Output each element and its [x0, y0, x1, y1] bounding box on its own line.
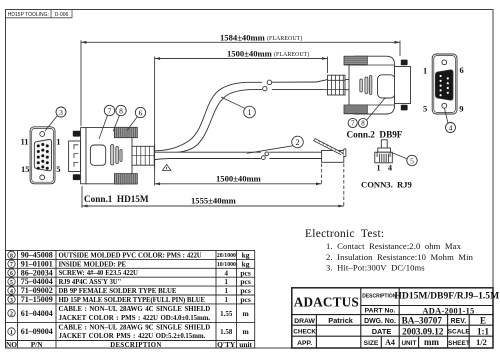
svg-text:SIZE: SIZE [364, 340, 379, 347]
svg-text:DESCRIPTION: DESCRIPTION [362, 294, 397, 300]
callout 6 [127, 107, 146, 130]
bom item 3 row [8, 295, 251, 304]
svg-text:(FLAREOUT): (FLAREOUT) [274, 51, 309, 58]
svg-text:pcs: pcs [240, 277, 251, 286]
svg-text:1: 1 [10, 330, 13, 336]
svg-text:RJ9 4P4C ASS'Y 3U": RJ9 4P4C ASS'Y 3U" [59, 279, 122, 286]
svg-text:2. Insulation Resistance:10: 2. Insulation Resistance:10 Mohm Min [326, 252, 474, 262]
svg-text:28/1000: 28/1000 [217, 253, 236, 259]
callout 8 db9f [358, 98, 385, 128]
callout 5 [392, 153, 418, 166]
svg-text:71–15009: 71–15009 [21, 295, 53, 304]
svg-text:3. Hit–Pot:300V DC/10ms: 3. Hit–Pot:300V DC/10ms [326, 263, 425, 273]
svg-text:2: 2 [296, 138, 300, 147]
svg-text:DESCRIPTION: DESCRIPTION [110, 342, 162, 349]
cable 9C upper [155, 82, 317, 153]
svg-text:OUTSIDE MOLDED PVC COLOR: PMS: OUTSIDE MOLDED PVC COLOR: PMS : 422U [59, 252, 202, 259]
svg-text:Electronic Test:: Electronic Test: [305, 228, 384, 240]
svg-text:4: 4 [388, 164, 392, 173]
break mark upper cable [262, 80, 272, 91]
svg-text:INSIDE MOLDED: PE: INSIDE MOLDED: PE [59, 261, 127, 268]
svg-text:JACKET COLOR PMS : 422U OD:5.2: JACKET COLOR PMS : 422U OD:5.2±0.15mm. [59, 333, 206, 340]
wing bottom [344, 105, 367, 114]
bom item 2 row [8, 306, 250, 322]
svg-text:m: m [242, 309, 249, 318]
DB9F side view [317, 56, 411, 114]
svg-text:pcs: pcs [240, 268, 251, 277]
svg-text:BA–30707: BA–30707 [402, 315, 443, 325]
RJ9 plug side view [314, 139, 346, 163]
svg-text:Q'TY: Q'TY [217, 340, 236, 349]
svg-text:DB 9P FEMALE SOLDER TYPE BLUE: DB 9P FEMALE SOLDER TYPE BLUE [59, 288, 177, 295]
metal part [395, 67, 411, 104]
tooling box [6, 10, 73, 18]
svg-text:6: 6 [10, 271, 13, 277]
callout 4 [445, 109, 456, 133]
svg-text:61–09004: 61–09004 [21, 327, 53, 336]
boot neck [345, 79, 350, 89]
svg-text:5: 5 [56, 164, 60, 174]
svg-text:APP.: APP. [297, 340, 312, 347]
svg-text:1555±40mm: 1555±40mm [191, 196, 237, 206]
svg-text:4: 4 [10, 289, 13, 295]
screw 6 top (knurled) [114, 127, 137, 137]
svg-text:90–45008: 90–45008 [21, 251, 53, 260]
svg-text:1584±40mm: 1584±40mm [220, 32, 266, 42]
svg-text:1: 1 [56, 137, 60, 147]
svg-text:pcs: pcs [240, 295, 251, 304]
latch [314, 139, 343, 155]
svg-text:D-006: D-006 [55, 12, 69, 18]
svg-text:kg: kg [242, 259, 250, 268]
shell [349, 56, 395, 114]
svg-text:10/1000: 10/1000 [217, 262, 236, 268]
svg-text:UNIT: UNIT [401, 340, 416, 347]
callout 1 [221, 97, 255, 118]
svg-text:11: 11 [20, 137, 28, 147]
svg-text:kg: kg [242, 251, 250, 260]
callout 7 db9f [348, 118, 357, 127]
svg-text:91–01001: 91–01001 [21, 259, 53, 268]
svg-text:1: 1 [377, 164, 381, 173]
metal D-sub shell [69, 141, 81, 172]
svg-text:SCALE: SCALE [448, 329, 471, 336]
title block [292, 288, 499, 348]
svg-text:1/2: 1/2 [476, 338, 487, 347]
grip slots [360, 79, 363, 92]
svg-text:(FLAREOUT): (FLAREOUT) [267, 35, 302, 42]
dimension 1584 [81, 40, 400, 126]
pins [37, 143, 49, 170]
svg-text:ADACTUS: ADACTUS [294, 295, 359, 310]
svg-text:3: 3 [59, 108, 63, 117]
svg-text:ADA-2001-15: ADA-2001-15 [422, 306, 474, 315]
svg-text:DWG. No.: DWG. No. [364, 318, 396, 325]
svg-text:3: 3 [10, 298, 13, 304]
break mark lower cable [261, 151, 269, 159]
cable flare boot [317, 80, 328, 90]
svg-text:2003.09.12: 2003.09.12 [402, 327, 444, 337]
svg-text:HD15M/DB9F/RJ9–1.5M: HD15M/DB9F/RJ9–1.5M [394, 291, 499, 302]
svg-text:1. Contact Resistance:2.0 o: 1. Contact Resistance:2.0 ohm Max [326, 241, 462, 251]
cable 4C lower [155, 152, 323, 159]
svg-text:75–04004: 75–04004 [21, 277, 53, 286]
callout 3 [45, 107, 66, 131]
DB9 face view [432, 54, 457, 114]
panel [378, 75, 395, 98]
screw top [73, 131, 81, 137]
dimension 1500 bottom [155, 164, 322, 184]
extension line over cables [154, 144, 156, 170]
screws [401, 60, 408, 66]
svg-text:unit: unit [239, 340, 252, 349]
svg-text:1: 1 [224, 296, 228, 304]
svg-text:Conn.1 HD15M: Conn.1 HD15M [84, 194, 149, 204]
svg-text:1: 1 [224, 287, 228, 295]
svg-text:SCREW: 4#–40 E23.5 422U: SCREW: 4#–40 E23.5 422U [59, 270, 139, 277]
svg-text:1500±40mm: 1500±40mm [216, 173, 262, 183]
svg-text:15: 15 [21, 164, 30, 174]
callout 8 [113, 105, 126, 131]
svg-text:4: 4 [224, 269, 228, 277]
svg-text:Conn.2 DB9F: Conn.2 DB9F [347, 130, 403, 140]
svg-text:P/N: P/N [31, 340, 44, 349]
bom header row [6, 340, 253, 349]
svg-text:1.55: 1.55 [220, 310, 233, 318]
RJ9 front view [375, 140, 393, 163]
svg-text:2: 2 [10, 312, 13, 318]
svg-text:71–09002: 71–09002 [21, 286, 53, 295]
svg-text:JACKET COLOR : PMS : 422U OD:4: JACKET COLOR : PMS : 422U OD:4.0±0.15mm. [59, 315, 211, 322]
svg-text:6: 6 [139, 108, 143, 117]
svg-text:1: 1 [423, 66, 427, 76]
svg-text:8: 8 [119, 106, 123, 115]
svg-text:4: 4 [449, 123, 453, 132]
svg-text:8: 8 [10, 253, 13, 259]
grip slots [111, 145, 114, 166]
svg-text:CABLE : NON–UL 28AWG 9C SINGLE: CABLE : NON–UL 28AWG 9C SINGLE SHIELD [59, 324, 211, 331]
svg-text:pcs: pcs [240, 286, 251, 295]
svg-text:Patrick: Patrick [328, 316, 354, 325]
D insert [34, 139, 51, 170]
svg-text:7: 7 [108, 106, 112, 115]
svg-text:1500±40mm: 1500±40mm [227, 49, 273, 59]
strain relief [132, 146, 154, 165]
svg-text:mm: mm [424, 337, 439, 347]
svg-text:CONN3. RJ9: CONN3. RJ9 [361, 180, 412, 190]
bom item 6 row [8, 268, 251, 277]
HD15M side view [69, 127, 155, 184]
svg-text:8: 8 [361, 120, 365, 128]
BOM table [6, 251, 255, 349]
svg-text:m: m [242, 327, 249, 336]
svg-text:1.58: 1.58 [220, 328, 233, 336]
dimension 1555 [82, 164, 344, 208]
svg-text:61–04004: 61–04004 [21, 309, 53, 318]
svg-text:9: 9 [459, 103, 463, 113]
holes [40, 132, 45, 137]
svg-text:DRAW: DRAW [294, 318, 315, 325]
warning triangle [162, 164, 171, 170]
svg-text:7: 7 [351, 120, 355, 128]
screw 6 bottom (knurled) [114, 174, 137, 184]
svg-text:5: 5 [10, 280, 13, 286]
svg-text:REV.: REV. [451, 318, 467, 325]
svg-text:86–20034: 86–20034 [21, 268, 53, 277]
svg-text:CABLE : NON–UL 28AWG 4C SINGLE: CABLE : NON–UL 28AWG 4C SINGLE SHIELD [59, 306, 211, 313]
svg-text:5: 5 [410, 156, 414, 165]
wing top [344, 56, 367, 65]
body recess [90, 145, 105, 165]
svg-text:A4: A4 [385, 338, 395, 347]
svg-text:1: 1 [224, 278, 228, 286]
svg-text:DATE: DATE [372, 327, 392, 336]
bom item 5 row [8, 277, 251, 286]
dimension 1500 top [155, 57, 328, 186]
HD15 face view [30, 127, 55, 184]
svg-text:CHECK: CHECK [293, 329, 316, 336]
flange [81, 128, 86, 184]
screw bottom [73, 174, 81, 180]
svg-text:PART No.: PART No. [365, 308, 396, 315]
callout 2 [247, 136, 304, 153]
bom item 8 row [8, 251, 250, 260]
svg-text:NO: NO [6, 340, 17, 349]
svg-text:1: 1 [248, 108, 252, 117]
svg-text:6: 6 [460, 65, 464, 75]
bom item 1 row [8, 324, 250, 340]
svg-text:HD 15P MALE SOLDER TYPE(FULL P: HD 15P MALE SOLDER TYPE(FULL PIN) BLUE [59, 297, 206, 304]
svg-text:7: 7 [10, 262, 13, 268]
svg-text:HD15P TOOLING:: HD15P TOOLING: [8, 12, 49, 18]
svg-text:5: 5 [423, 103, 427, 113]
molded body [86, 128, 132, 184]
svg-text:1:1: 1:1 [477, 326, 489, 336]
cable ribs [328, 75, 346, 95]
svg-text:E: E [480, 315, 486, 325]
bom item 7 row [8, 259, 250, 268]
svg-text:SHEET: SHEET [448, 340, 470, 347]
callout 7 [99, 105, 115, 139]
pins in metal shell [74, 145, 78, 167]
bom item 4 row [8, 286, 251, 295]
